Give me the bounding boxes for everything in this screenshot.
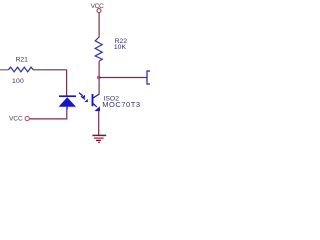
wire LED to VCC (left) — [29, 109, 66, 119]
ground — [92, 135, 106, 142]
svg-text:VCC: VCC — [9, 115, 23, 122]
optocoupler ISO2 LED cathode bar — [59, 95, 76, 97]
phototransistor base bar — [92, 94, 94, 106]
phototransistor emitter — [93, 103, 100, 111]
phototransistor collector — [93, 94, 100, 98]
wire R21 to LED corner — [33, 70, 66, 96]
LED anode lead — [66, 107, 68, 110]
power VCC (left) circle — [25, 116, 29, 120]
resistor R21 — [8, 67, 33, 72]
photon arrow 1 — [79, 93, 85, 98]
wire R21 left lead — [0, 69, 9, 71]
power VCC (top) circle — [97, 9, 101, 13]
wire emitter to ground — [98, 111, 100, 136]
wire VCC to R22 — [98, 13, 100, 38]
svg-text:R21: R21 — [16, 56, 28, 63]
junction — [97, 76, 101, 79]
photon arrow 2 — [81, 96, 88, 102]
wire R22 to junction and collector — [98, 61, 100, 94]
svg-text:10K: 10K — [114, 44, 127, 51]
optocoupler ISO2 LED triangle — [59, 97, 76, 107]
svg-text:MOC70T3: MOC70T3 — [102, 100, 140, 109]
wire junction to connector — [99, 77, 147, 79]
resistor R22 — [95, 37, 102, 61]
connector port (right edge) — [147, 70, 150, 84]
svg-text:100: 100 — [12, 78, 24, 85]
